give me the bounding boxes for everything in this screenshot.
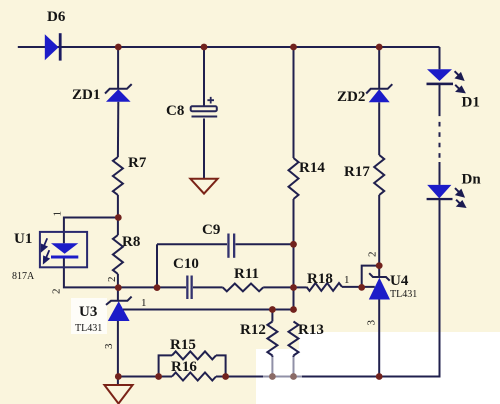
- wire R18 to U4: [342, 286, 375, 288]
- junction ZD1-rail: [115, 44, 122, 51]
- wire top rail: [18, 46, 440, 48]
- svg-text:1: 1: [344, 274, 350, 286]
- ground below C8: [190, 179, 217, 194]
- LED D1: [427, 69, 452, 81]
- wire Dn to bottom corner: [216, 200, 440, 377]
- junction R13-R14: [290, 306, 297, 313]
- wire D1 to dashed: [439, 85, 441, 112]
- wire C9 left: [157, 243, 227, 245]
- faded watermark-erase overlay: [263, 357, 302, 404]
- wire right column upper: [439, 47, 441, 69]
- wire U3 to ground: [117, 321, 119, 385]
- wire R15 loop right: [216, 355, 226, 376]
- svg-text:TL431: TL431: [390, 289, 417, 300]
- svg-text:D1: D1: [462, 95, 480, 111]
- junction R13 bottom (faded): [290, 373, 297, 380]
- wire C10 to R11: [193, 286, 223, 288]
- white patch under R12 R13: [256, 349, 302, 404]
- wire dashed to Dn: [439, 162, 441, 185]
- junction R15-R16 left: [155, 373, 162, 380]
- resistor R15: [172, 351, 216, 359]
- wire ZD1 to R7: [117, 102, 119, 157]
- junction R17-U4.2: [376, 262, 383, 269]
- wire C9 right: [236, 243, 294, 245]
- capacitor C8: [191, 106, 217, 111]
- junction U1.2-R8-U3: [115, 284, 122, 291]
- LED Dn arrows: [455, 188, 465, 207]
- TL431 U3: [108, 301, 130, 321]
- wire R12 stub top: [271, 310, 273, 322]
- junction C9-R14: [290, 241, 297, 248]
- svg-text:R16: R16: [171, 359, 197, 375]
- wire C9 branch vertical: [156, 244, 158, 287]
- svg-text:U3: U3: [79, 304, 97, 320]
- wire ZD2 to R17: [378, 102, 380, 155]
- resistor R7: [113, 157, 123, 195]
- resistor R13: [289, 322, 299, 356]
- capacitor C10: [186, 276, 188, 300]
- svg-text:U1: U1: [14, 231, 32, 247]
- wire R14 column top: [293, 47, 295, 158]
- wire R14col to R18: [294, 286, 307, 288]
- svg-text:R7: R7: [128, 155, 147, 171]
- capacitor C9: [227, 234, 229, 258]
- junction R11-R18-R14: [290, 284, 297, 291]
- wire R8 to U3: [117, 274, 119, 301]
- svg-text:U4: U4: [390, 273, 409, 289]
- wire U1 pin2: [64, 258, 118, 287]
- wire U3 pin1: [123, 309, 294, 311]
- svg-text:Dn: Dn: [462, 172, 482, 188]
- svg-text:C8: C8: [166, 103, 184, 119]
- svg-text:ZD1: ZD1: [72, 87, 100, 103]
- svg-text:817A: 817A: [12, 271, 35, 282]
- junction R15-R16 right: [222, 373, 229, 380]
- junction ZD2-rail: [376, 44, 383, 51]
- resistor R12: [267, 322, 277, 356]
- svg-text:R17: R17: [344, 164, 370, 180]
- LED D1 arrows: [455, 71, 465, 92]
- wire dashed segment: [439, 112, 441, 163]
- junction R12 bottom (faded): [269, 373, 276, 380]
- zener ZD1: [106, 89, 131, 102]
- svg-text:R15: R15: [170, 337, 196, 353]
- svg-text:R11: R11: [234, 266, 259, 282]
- wire R13 stub bottom: [293, 356, 295, 377]
- resistor R8: [113, 235, 123, 274]
- wire U1 pin1: [64, 218, 118, 244]
- optocoupler U1 box: [40, 232, 87, 267]
- junction C8-rail: [201, 44, 208, 51]
- LED Dn: [427, 185, 451, 199]
- zener ZD2: [369, 89, 390, 102]
- wire R14 column lower: [293, 199, 295, 310]
- wire ZD1 column top: [117, 47, 119, 89]
- wire C8 to ground: [203, 119, 205, 179]
- svg-text:1: 1: [141, 297, 147, 309]
- junction C9-C10 branch: [154, 284, 161, 291]
- wire R12 stub bottom: [271, 356, 273, 377]
- resistor R16: [172, 373, 216, 381]
- wire C8 column top: [203, 47, 205, 107]
- wire R11 to R14 column: [263, 286, 293, 288]
- wire R7 to R8: [117, 195, 119, 235]
- svg-text:R13: R13: [298, 322, 324, 338]
- svg-text:1: 1: [52, 211, 64, 217]
- junction U4.3-bottom: [376, 373, 383, 380]
- wire U4 to bottom: [378, 300, 380, 377]
- resistor R11: [223, 284, 264, 292]
- U1 arrows: [42, 238, 50, 262]
- svg-text:R12: R12: [240, 322, 266, 338]
- junction R14-rail: [290, 44, 297, 51]
- white patch behind U3 label: [71, 298, 107, 334]
- svg-text:C10: C10: [173, 256, 199, 272]
- junction U3-ground: [115, 373, 122, 380]
- svg-text:TL431: TL431: [75, 323, 102, 334]
- junction U1.1-R7-R8: [115, 214, 122, 221]
- U1 LED: [51, 243, 78, 254]
- resistor R17: [374, 155, 384, 195]
- svg-text:2: 2: [51, 289, 63, 295]
- wire U4 feedback loop: [362, 266, 380, 287]
- diode D6: [45, 34, 59, 60]
- resistor R18: [307, 283, 343, 291]
- ground below U3: [104, 385, 132, 404]
- svg-text:D6: D6: [47, 9, 66, 25]
- svg-text:R8: R8: [122, 234, 140, 250]
- wire R15 loop: [159, 355, 172, 376]
- svg-text:2: 2: [106, 277, 118, 283]
- wire bottom left segment: [118, 376, 172, 378]
- wire ZD2 column top: [378, 47, 380, 89]
- wire R17 to U4: [378, 195, 380, 277]
- svg-text:R14: R14: [299, 160, 325, 176]
- svg-text:3: 3: [103, 343, 115, 349]
- resistor R14: [289, 158, 299, 199]
- svg-text:C9: C9: [202, 222, 220, 238]
- junction R12 top: [269, 306, 276, 313]
- junction R18-U4.1: [358, 284, 365, 291]
- svg-text:R18: R18: [307, 271, 333, 287]
- white patch bottom right: [299, 332, 500, 404]
- svg-text:2: 2: [367, 252, 379, 258]
- wire mid node to C10: [118, 286, 186, 288]
- TL431 U4: [369, 278, 390, 300]
- svg-text:3: 3: [366, 320, 378, 326]
- svg-text:ZD2: ZD2: [337, 89, 365, 105]
